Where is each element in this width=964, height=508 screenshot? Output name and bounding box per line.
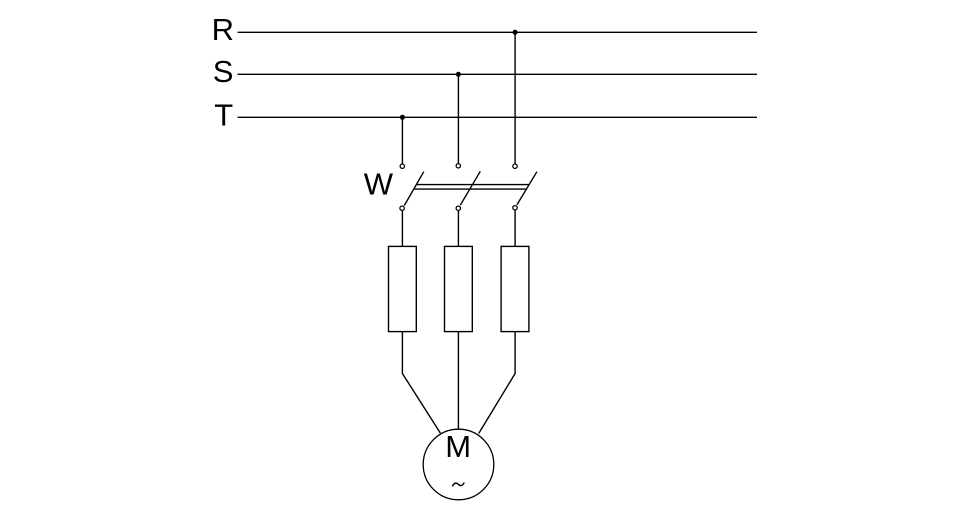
svg-text:S: S [213,54,234,89]
svg-text:W: W [364,167,394,202]
svg-text:T: T [214,97,233,132]
svg-text:M: M [445,429,471,464]
svg-text:R: R [212,12,234,47]
